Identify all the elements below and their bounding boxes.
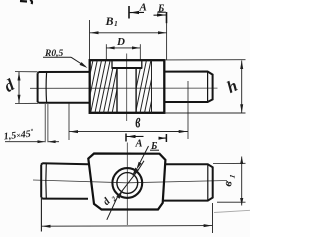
label v1 (rotated): [220, 173, 237, 188]
extension line right of B1 / Б bar continuation: [166, 23, 168, 60]
outer circle: [112, 168, 142, 198]
svg-text:А: А: [135, 138, 143, 149]
svg-text:А: А: [139, 1, 147, 13]
central block octagon (bottom view): [88, 154, 165, 210]
svg-text:D: D: [116, 36, 125, 48]
leader A to circle: [136, 146, 148, 170]
bottom view vertical centerline: [126, 143, 128, 226]
svg-text:Б: Б: [157, 4, 165, 15]
view marker A (top): [129, 6, 144, 19]
dimension B1 line: [90, 31, 167, 34]
chamfer line right cylinder: [207, 72, 209, 103]
flange top edge extension to h: [165, 59, 246, 61]
counterbore outline: [112, 61, 143, 69]
view marker B (top): [154, 12, 167, 23]
dimension D line: [106, 44, 140, 60]
hole walls: [117, 68, 136, 113]
inner vertical line right of hole: [151, 61, 153, 113]
right cylinder (top view): [165, 72, 213, 103]
hatching left wall: [82, 60, 123, 113]
paper background: [0, 0, 250, 237]
top view vertical centerline: [126, 54, 128, 122]
left cylinder (bottom view): [41, 163, 88, 199]
total length dimension (bottom): [41, 199, 212, 233]
chamfer dim 1,5x45 extension lines: [45, 104, 48, 142]
label d2 (rotated): [101, 191, 118, 208]
svg-text:в: в: [135, 109, 141, 132]
svg-text:В: В: [105, 14, 114, 28]
top view horizontal centerline: [30, 87, 218, 89]
flange outline (top view): [90, 60, 165, 113]
left cylinder (top view): [38, 72, 90, 103]
chamfer line left cylinder (bottom view): [45, 163, 47, 198]
svg-text:1: 1: [114, 19, 118, 28]
bottom view horizontal centerline: [33, 180, 227, 183]
label h (rotated): [224, 76, 241, 97]
dimension d (left): [15, 72, 38, 104]
label d (rotated): [1, 75, 18, 96]
chamfer line right cylinder (bottom view): [207, 164, 209, 200]
leader R0,5: [43, 57, 88, 68]
extension line left of B1: [89, 20, 91, 60]
inner circle: [117, 173, 138, 194]
chamfer line left cylinder: [45, 72, 48, 103]
hatching right band: [131, 60, 160, 113]
view marker A (bottom): [126, 134, 144, 142]
dimension v1 (right, bottom view): [213, 157, 246, 206]
stray cut text top-left: [20, 0, 32, 4]
d2 diameter line: [107, 161, 144, 220]
dimension v (middle width): [69, 81, 188, 140]
dimension h (right): [240, 60, 243, 113]
flange bottom edge extension to h: [165, 112, 246, 114]
chamfer dim 1,5x45 arrows: [5, 140, 59, 143]
right cylinder (bottom view): [163, 164, 213, 200]
label v: [135, 109, 141, 132]
view marker B (bottom): [159, 134, 167, 142]
faint scan artifact line bottom right: [214, 210, 250, 212]
